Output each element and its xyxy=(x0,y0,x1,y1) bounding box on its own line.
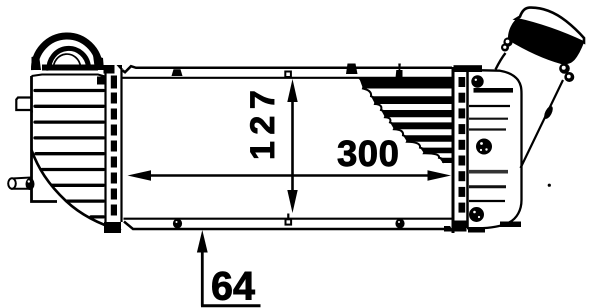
right tank foot xyxy=(500,222,521,228)
left pin flange xyxy=(26,178,35,190)
left hose elbow left base wedge xyxy=(32,55,42,70)
left header strip left line xyxy=(104,70,106,232)
core breakout fin stripe 2 xyxy=(371,96,453,104)
left tank outline xyxy=(32,76,58,202)
right pipe clamp ear left lower xyxy=(501,44,509,52)
dimension 64 leader line xyxy=(201,248,204,306)
right pipe clamp ear left upper xyxy=(503,37,512,46)
right tank thick bar xyxy=(474,88,514,93)
top band clip x352 xyxy=(346,64,358,75)
left tank ribs xyxy=(35,91,104,217)
bottom band right step xyxy=(444,226,454,232)
right pipe right edge diagonal xyxy=(521,80,564,168)
breakout jagged edge xyxy=(359,78,443,163)
dimension 300 line xyxy=(143,174,436,177)
core breakout fin stripe 6 xyxy=(420,148,453,154)
core bottom band lower line with chamfer xyxy=(124,222,445,230)
left hose elbow base bar xyxy=(42,65,98,71)
right pipe clamp ear right upper xyxy=(559,63,570,74)
core top band lower line xyxy=(122,77,452,79)
right pipe clamp ear right lower xyxy=(564,72,574,82)
left pin cap xyxy=(8,178,16,188)
right header bottom cap xyxy=(454,221,467,232)
right tank bottom marks xyxy=(468,228,485,233)
right pipe clamp band xyxy=(508,19,584,64)
left tank curved shoulder line xyxy=(32,150,122,231)
right header strip left line xyxy=(452,67,455,233)
stray dot xyxy=(548,184,551,187)
top band mark x399 xyxy=(396,70,403,78)
dimension 64 shelf line xyxy=(201,304,261,307)
right pipe seam blob xyxy=(542,105,554,120)
left pin flange highlight xyxy=(28,180,30,182)
left hose elbow inner clamp band xyxy=(49,48,89,70)
dimension 127 arrowhead top xyxy=(287,79,297,102)
left header top cap triangle xyxy=(117,65,123,71)
right header top cap xyxy=(454,65,483,72)
left header top cap xyxy=(104,65,115,74)
left hose elbow outer clamp band xyxy=(34,36,99,70)
core top band upper line with chamfer xyxy=(122,66,452,72)
right pipe left edge xyxy=(496,53,506,70)
right tank ribs xyxy=(469,106,510,201)
left header slots xyxy=(111,76,117,216)
core breakout fin stripe 7 xyxy=(439,158,453,163)
svg-text:64: 64 xyxy=(211,265,255,308)
left header rib-end chunk xyxy=(97,77,105,85)
core breakout fin stripe 1 xyxy=(359,78,453,89)
core bottom band upper line xyxy=(124,218,453,220)
dimension 300 arrowhead left xyxy=(128,170,152,181)
left bracket tab xyxy=(16,98,32,113)
left hose elbow right base bridge xyxy=(93,55,104,70)
dimension 64 arrowhead xyxy=(197,230,208,253)
right header strip right line xyxy=(466,67,469,228)
dimension 127 line xyxy=(291,96,294,197)
bottom band square clip x287 xyxy=(286,219,292,224)
top band square clip x287 xyxy=(285,72,291,78)
right tank boss middle xyxy=(476,139,492,155)
dimension 300 arrowhead right xyxy=(428,170,452,181)
left tank top edge xyxy=(32,75,106,77)
left hose elbow top nub xyxy=(64,34,71,39)
core breakout fin stripe 3 xyxy=(381,110,453,117)
right pipe cap xyxy=(516,8,584,43)
core breakout fin stripe 5 xyxy=(403,135,453,142)
left header strip right line xyxy=(120,68,122,222)
right tank boss top xyxy=(471,75,483,87)
svg-text:127: 127 xyxy=(244,84,282,160)
bottom band oval clip x177 xyxy=(173,219,182,229)
left header bottom cap xyxy=(104,222,121,233)
right tank boss bottom xyxy=(469,207,484,222)
left hose elbow inner arc line xyxy=(53,54,80,69)
left pin body xyxy=(12,178,30,189)
svg-text:300: 300 xyxy=(337,133,399,174)
top band clip x177 xyxy=(172,69,183,76)
bottom band oval clip x400 xyxy=(395,219,404,229)
core breakout fin stripe 4 xyxy=(390,122,453,129)
right header slots xyxy=(459,77,466,213)
dimension 127 arrowhead bottom xyxy=(287,190,297,213)
right tank outline xyxy=(467,70,522,228)
